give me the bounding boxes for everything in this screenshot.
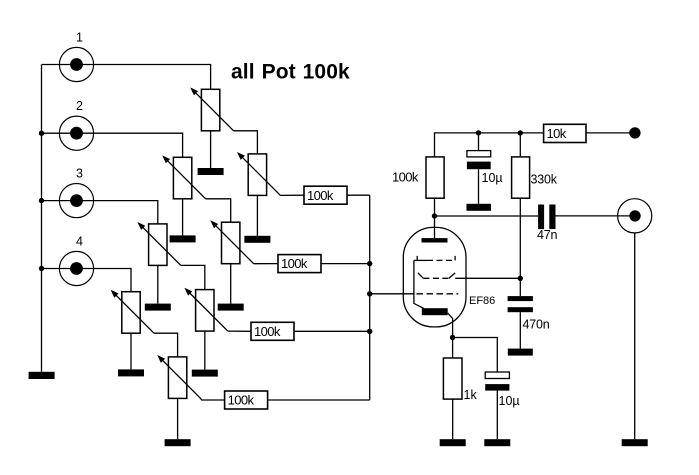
resistor R3 100k (251, 322, 294, 340)
potentiometer P3b (channel 3) wiper arrow (187, 290, 228, 331)
wire jack1 to pot P1 top (42, 65, 211, 90)
svg-text:10µ: 10µ (499, 394, 520, 408)
capacitor C4 10u (cathode bypass) (485, 372, 509, 439)
potentiometer P2a (channel 2) wiper arrow (165, 158, 206, 199)
wire 10k to B+ terminal (586, 132, 632, 134)
wire 1k to ground (452, 399, 454, 439)
svg-text:3: 3 (76, 167, 83, 181)
wire 330k bottom to screen node (crosses anode line) (519, 198, 521, 278)
wire jack2 to pot P2 top (42, 133, 183, 157)
potentiometer P1a (channel 1) body (201, 89, 219, 131)
connector jack 2 (59, 116, 93, 150)
node cathode junction (450, 335, 455, 340)
wire pot P4b (channel 4) bottom to ground (177, 398, 179, 439)
node anode junction (432, 213, 437, 218)
svg-text:all Pot 100k: all Pot 100k (231, 61, 350, 84)
wire jack4 to pot P4 top (42, 269, 132, 292)
wire pot P3a (channel 3) bottom to ground (157, 265, 159, 303)
potentiometer P3b (channel 3) body (196, 290, 214, 332)
wire pot P4a (channel 4) wiper to pot P4b (channel 4) top (154, 333, 178, 357)
connector jack 1 (59, 47, 93, 81)
tube U1 anode plate (422, 238, 448, 242)
svg-text:100k: 100k (254, 324, 281, 339)
ground (pot P1a (channel 1)) (198, 168, 224, 175)
svg-text:100k: 100k (307, 188, 334, 203)
ground (C1) (467, 204, 492, 211)
wire anode node to coupling cap 47n (435, 215, 539, 217)
wire left ground bus vertical (41, 65, 43, 372)
node junction bus-jack3 (39, 198, 44, 203)
wire pot P2a (channel 2) wiper to pot P2b (channel 2) top (206, 199, 231, 222)
node mix bus / grid (367, 291, 372, 296)
wire pot P3b (channel 3) bottom to ground (204, 331, 206, 370)
connector jack 4 (59, 251, 93, 285)
resistor R4 100k (225, 391, 268, 409)
ground (pot P2b (channel 2)) (218, 304, 244, 311)
svg-text:4: 4 (76, 235, 83, 249)
wire pot P3b (channel 3) wiper to resistor R3 (228, 330, 251, 332)
wire cathode node to 1k (452, 338, 454, 359)
resistor R8 1k (cathode) (443, 358, 462, 399)
resistor R5 100k (anode load) (426, 157, 444, 198)
tube U1 grid g3 (suppressor, dashed with end ticks) (414, 256, 455, 261)
ground (pot P1b (channel 1)) (244, 236, 270, 243)
ground (pot P2a (channel 2)) (170, 235, 196, 242)
potentiometer P3a (channel 3) body (149, 224, 167, 266)
potentiometer P2b (channel 2) body (222, 222, 240, 264)
wire output jack to ground (634, 233, 636, 439)
wire pot P4a (channel 4) bottom to ground (130, 333, 132, 369)
svg-text:1k: 1k (464, 388, 478, 402)
svg-text:10k: 10k (547, 126, 567, 141)
ground (C4) (484, 439, 510, 446)
svg-text:EF86: EF86 (469, 295, 495, 307)
node rail / 10u decoupling cap (476, 130, 481, 135)
node junction bus-jack2 (39, 131, 44, 136)
potentiometer P4b (channel 4) wiper arrow (160, 357, 201, 398)
wire resistor R2 to mix bus (321, 263, 370, 265)
wire pot P4b (channel 4) wiper to resistor R4 (201, 398, 225, 400)
svg-text:470n: 470n (523, 318, 550, 332)
svg-text:47n: 47n (537, 228, 558, 242)
potentiometer P1a (channel 1) wiper arrow (193, 90, 234, 131)
potentiometer P4a (channel 4) wiper arrow (113, 292, 154, 333)
potentiometer P4a (channel 4) body (122, 292, 140, 334)
node junction bus-jack4 (39, 266, 44, 271)
wire anode node down to tube anode (434, 216, 436, 238)
wire pot P1b (channel 1) bottom to ground (256, 195, 258, 235)
resistor R6 330k (screen feed) (512, 157, 530, 198)
capacitor C1 10u rail decoupling (467, 133, 491, 204)
wire pot P3a (channel 3) wiper to pot P3b (channel 3) top (181, 265, 205, 289)
connector jack 3 (59, 184, 93, 218)
ground (C3) (508, 349, 533, 356)
wire pot P2b (channel 2) wiper to resistor R2 (254, 263, 278, 265)
ground (pot P4b (channel 4)) (165, 439, 191, 446)
potentiometer P2a (channel 2) body (173, 157, 191, 199)
potentiometer P1b (channel 1) wiper arrow (239, 154, 280, 195)
potentiometer P4b (channel 4) body (168, 357, 186, 399)
resistor R7 10k (supply dropper) (544, 124, 586, 142)
wire resistor R4 to mix bus (268, 399, 370, 401)
wire mix bus to EF86 grid g1 (370, 293, 414, 295)
capacitor C2 47n (output coupling) (538, 205, 555, 230)
wire g2 to screen node (455, 277, 520, 279)
tube U1 EF86 envelope (403, 227, 466, 327)
node screen junction (518, 276, 523, 281)
node mix bus / R3 (367, 329, 372, 334)
node mix bus / R2 (367, 261, 372, 266)
potentiometer P2b (channel 2) wiper arrow (213, 223, 254, 264)
tube U1 grid g2 (screen, dashed with diagonal ticks) (418, 273, 455, 278)
node rail / 330k (518, 130, 523, 135)
wire pot P1b (channel 1) wiper to resistor R1 (280, 194, 304, 196)
wire R5 bottom to anode node (434, 198, 436, 216)
connector output jack (618, 199, 652, 233)
svg-text:100k: 100k (281, 256, 308, 271)
resistor R1 100k (304, 186, 347, 204)
ground (output jack) (622, 439, 648, 446)
ground (pot P3b (channel 3)) (192, 370, 218, 377)
resistor R2 100k (278, 255, 321, 273)
ground (bus) (29, 372, 55, 379)
wire 47n to output jack (556, 215, 636, 217)
wire resistor R1 to mix bus (347, 194, 370, 196)
svg-text:330k: 330k (531, 173, 558, 187)
wire mix bus vertical (369, 195, 371, 400)
ground (pot P3a (channel 3)) (145, 304, 171, 311)
potentiometer P3a (channel 3) wiper arrow (140, 224, 181, 265)
wire rail to 330k top (519, 133, 521, 157)
tube U1 grid g1 (control, dashed) (417, 293, 459, 295)
wire resistor R3 to mix bus (294, 330, 370, 332)
ground (R8) (440, 439, 466, 446)
svg-text:10µ: 10µ (482, 171, 503, 185)
wire B+ rail (top) (435, 133, 544, 157)
wire cathode node to 10u bypass (453, 338, 498, 373)
wire pot P1a (channel 1) bottom to ground (210, 131, 212, 168)
svg-text:1: 1 (76, 31, 83, 45)
wire jack3 to pot P3 top (42, 201, 158, 224)
wire pot P2b (channel 2) bottom to ground (230, 264, 232, 304)
ground (pot P4a (channel 4)) (118, 369, 144, 376)
wire pot P1a (channel 1) wiper to pot P1b (channel 1) top (234, 131, 258, 154)
svg-text:100k: 100k (228, 393, 255, 408)
svg-text:100k: 100k (392, 170, 419, 185)
potentiometer P1b (channel 1) body (248, 154, 266, 196)
wire pot P2a (channel 2) bottom to ground (182, 199, 184, 236)
tube U1 cathode (414, 260, 453, 337)
svg-text:2: 2 (76, 99, 83, 113)
terminal B+ (629, 127, 640, 138)
capacitor C3 470n (screen bypass) (508, 278, 533, 348)
